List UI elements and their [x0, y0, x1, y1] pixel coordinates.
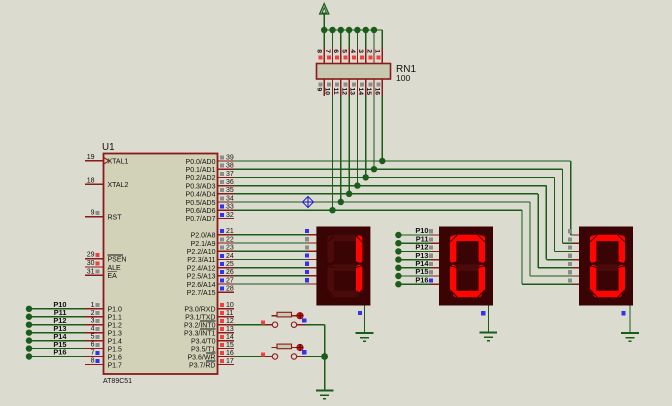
svg-text:P3.4/T0: P3.4/T0: [191, 338, 216, 345]
pin display3 segment g: [568, 278, 579, 284]
svg-text:12: 12: [340, 88, 347, 96]
svg-text:P2.6/A14: P2.6/A14: [187, 282, 216, 289]
svg-text:1: 1: [91, 302, 95, 309]
wire P2.4 to display1 segment: [234, 262, 316, 268]
pin display3 segment b: [568, 237, 579, 243]
svg-text:9: 9: [315, 88, 322, 92]
svg-text:P1.2: P1.2: [108, 323, 123, 330]
svg-text:13: 13: [226, 326, 234, 333]
junction dot bus 2: [329, 27, 335, 33]
svg-text:14: 14: [226, 334, 234, 341]
wire terminal P10 to display2: [395, 226, 439, 238]
junction dot AD4: [346, 191, 352, 197]
svg-text:16: 16: [226, 350, 234, 357]
wire RN1 pin11 to AD5 net: [340, 96, 342, 202]
svg-text:8: 8: [316, 49, 323, 53]
junction dot bus 5: [354, 27, 360, 33]
wire display1 to ground: [364, 306, 366, 334]
svg-text:P1.6: P1.6: [108, 354, 123, 361]
junction dot AD3: [354, 182, 360, 188]
pin display3 segment d: [568, 254, 579, 260]
pin 29 PSEN: [85, 252, 127, 264]
pin display3 segment a: [568, 229, 579, 235]
svg-text:28: 28: [226, 286, 234, 293]
svg-text:P1.5: P1.5: [108, 346, 123, 353]
svg-text:P3.2/INT0: P3.2/INT0: [184, 323, 216, 330]
wire terminal P11 to display2: [395, 234, 439, 246]
svg-text:P2.2/A10: P2.2/A10: [187, 249, 216, 256]
svg-text:P2.3/A11: P2.3/A11: [187, 257, 215, 264]
svg-text:27: 27: [226, 277, 234, 284]
svg-text:P2.5/A13: P2.5/A13: [187, 274, 216, 281]
svg-text:21: 21: [226, 228, 234, 235]
wire AD1 to display3 segment: [234, 169, 574, 243]
wire terminal P13 to display2: [395, 251, 439, 263]
RN1 top pins 8-1: [316, 48, 383, 64]
push button SW1: [261, 312, 306, 327]
wire RN1 pin12 to AD4 net: [348, 96, 350, 194]
svg-text:6: 6: [91, 342, 95, 349]
junction dot bus 4: [346, 27, 352, 33]
pins 10-17 P3.0-P3.7: [184, 302, 234, 369]
pins 1-8 P1.0-P1.7: [85, 302, 122, 369]
svg-text:18: 18: [87, 177, 95, 184]
svg-text:P1.0: P1.0: [108, 307, 123, 314]
svg-text:32: 32: [226, 212, 234, 219]
wire P2.1 to display1 segment: [234, 237, 316, 243]
wire AD5 to display3 segment: [234, 202, 574, 276]
label U1: [102, 142, 115, 153]
push button SW2: [261, 344, 306, 359]
pins 39-32 P0.0-P0.7: [186, 154, 234, 223]
value 100: [396, 73, 410, 83]
svg-text:1: 1: [374, 49, 381, 53]
svg-text:3: 3: [357, 49, 364, 53]
svg-text:P2.1/A9: P2.1/A9: [191, 241, 216, 248]
svg-text:RST: RST: [108, 214, 123, 221]
pin display3 segment c: [568, 246, 579, 252]
svg-text:38: 38: [226, 163, 234, 170]
svg-text:22: 22: [226, 236, 234, 243]
junction dot bus 1: [321, 27, 327, 33]
svg-text:P0.4/AD4: P0.4/AD4: [186, 192, 216, 199]
wire terminal P12 to display2: [395, 243, 439, 255]
svg-text:9: 9: [91, 210, 95, 217]
wire display3 to ground: [629, 306, 631, 334]
pin 18 XTAL2: [85, 177, 128, 189]
svg-text:35: 35: [226, 187, 234, 194]
svg-text:P0.5/AD5: P0.5/AD5: [186, 200, 216, 207]
svg-text:36: 36: [226, 179, 234, 186]
op-chip U1 AT89C51 body: [104, 154, 218, 375]
wire display2 to ground: [487, 306, 489, 333]
svg-text:15: 15: [226, 342, 234, 349]
wire button2 to node: [305, 356, 325, 358]
svg-text:23: 23: [226, 245, 234, 252]
svg-text:17: 17: [226, 358, 234, 365]
svg-text:XTAL1: XTAL1: [108, 159, 129, 166]
svg-text:19: 19: [87, 154, 95, 161]
junction dot AD5: [338, 199, 344, 205]
wires P10-P16 to port1: [26, 300, 85, 360]
wire RN1 pin10 to AD6 net: [332, 96, 334, 210]
wire terminal P15 to display2: [395, 267, 439, 279]
svg-text:P0.2/AD2: P0.2/AD2: [186, 175, 216, 182]
svg-text:XTAL2: XTAL2: [108, 182, 129, 189]
pins 21-28 P2.0-P2.7: [187, 228, 234, 297]
svg-text:AT89C51: AT89C51: [103, 378, 132, 385]
svg-text:15: 15: [365, 88, 372, 96]
display U3 seven-seg digit 0: [439, 227, 493, 306]
svg-text:16: 16: [374, 88, 381, 96]
svg-text:P0.6/AD6: P0.6/AD6: [186, 208, 216, 215]
svg-text:P2.4/A12: P2.4/A12: [187, 265, 216, 272]
wire P2.2 to display1 segment: [234, 245, 316, 251]
wires bus to RN1 top pins: [324, 30, 382, 48]
wire P2.0 to display1 segment: [234, 229, 316, 235]
label AT89C51: [103, 378, 132, 385]
blue pin square display3 common: [621, 311, 625, 315]
wire RN1 pin15 to AD1 net: [373, 96, 375, 169]
svg-text:ALE: ALE: [108, 265, 122, 272]
svg-text:11: 11: [226, 310, 233, 317]
svg-text:P1.3: P1.3: [108, 330, 123, 337]
junction dot bus 7: [371, 27, 377, 33]
pin 30 ALE: [85, 260, 121, 272]
svg-text:P3.7/RD: P3.7/RD: [189, 362, 215, 369]
svg-text:11: 11: [332, 88, 339, 95]
svg-text:29: 29: [87, 252, 95, 259]
junction dot bus 3: [338, 27, 344, 33]
svg-text:26: 26: [226, 269, 234, 276]
pin display3 segment e: [568, 262, 579, 268]
wire top bus: [324, 29, 382, 31]
RN1 bottom pins 9-16: [315, 79, 382, 96]
wire P2.5 to display1 segment: [234, 270, 316, 276]
wire button1 to node: [305, 325, 325, 357]
ground display3: [621, 333, 639, 341]
blue pin square display1 common: [358, 311, 362, 315]
junction dot AD2: [363, 174, 369, 180]
svg-text:100: 100: [396, 73, 410, 83]
label RN1: [396, 64, 416, 75]
svg-text:7: 7: [324, 49, 331, 53]
svg-text:P3.0/RXD: P3.0/RXD: [184, 307, 215, 314]
wire P2.6 to display1 segment: [234, 278, 316, 284]
svg-text:8: 8: [91, 357, 95, 364]
wire AD0 to display3 segment: [234, 161, 574, 235]
junction dot AD1: [371, 166, 377, 172]
wire P3.2 to button1: [234, 324, 265, 326]
svg-text:4: 4: [349, 49, 356, 53]
blue pin square display2 common: [481, 311, 485, 315]
resistor network RN1 body: [317, 64, 391, 80]
wire AD4 to display3 segment: [234, 194, 574, 268]
svg-text:P0.0/AD0: P0.0/AD0: [186, 159, 216, 166]
svg-text:P3.6/WR: P3.6/WR: [187, 354, 215, 361]
junction dot AD0: [379, 158, 385, 164]
ground buttons: [316, 391, 334, 399]
svg-text:6: 6: [332, 49, 339, 53]
svg-text:7: 7: [91, 350, 95, 357]
wire AD6 to display3 segment: [234, 210, 574, 284]
svg-text:P3.1/TXD: P3.1/TXD: [185, 315, 215, 322]
wire AD2 to display3 segment: [234, 177, 574, 251]
svg-text:P3.3/INT1: P3.3/INT1: [184, 330, 216, 337]
svg-text:2: 2: [91, 310, 95, 317]
display U2 seven-seg digit 1: [316, 227, 370, 306]
ground display1: [356, 333, 374, 341]
wire terminal P16 to display2: [395, 275, 439, 287]
svg-text:37: 37: [226, 171, 234, 178]
pin 31 EA: [85, 268, 117, 280]
power symbol VCC: [320, 4, 329, 30]
svg-text:P2.7/A15: P2.7/A15: [187, 290, 216, 297]
svg-text:P1.7: P1.7: [108, 362, 123, 369]
svg-text:P1.1: P1.1: [108, 315, 123, 322]
svg-text:4: 4: [91, 326, 95, 333]
svg-text:34: 34: [226, 195, 234, 202]
wire P2.3 to display1 segment: [234, 254, 316, 260]
pin 9 RST: [85, 210, 122, 222]
svg-text:14: 14: [357, 88, 364, 96]
ground display2: [480, 333, 498, 341]
svg-text:P1.4: P1.4: [108, 338, 123, 345]
wire RN1 pin16 to AD0 net: [381, 96, 383, 161]
wire terminal P14 to display2: [395, 259, 439, 271]
svg-text:12: 12: [226, 318, 234, 325]
wire RN1 pin13 to AD3 net: [356, 96, 358, 186]
svg-text:P0.7/AD7: P0.7/AD7: [186, 216, 216, 223]
svg-text:P0.1/AD1: P0.1/AD1: [186, 167, 216, 174]
svg-text:30: 30: [87, 260, 95, 267]
junction dot bus 6: [363, 27, 369, 33]
svg-text:5: 5: [341, 49, 348, 53]
svg-text:P16: P16: [415, 275, 428, 284]
node marker diamond: [303, 197, 314, 208]
svg-text:13: 13: [349, 88, 356, 96]
svg-text:U1: U1: [102, 142, 115, 153]
pin 19 XTAL1: [85, 154, 128, 166]
svg-text:3: 3: [91, 318, 95, 325]
svg-text:PSEN: PSEN: [108, 257, 127, 264]
svg-text:10: 10: [226, 302, 234, 309]
svg-text:P3.5/T1: P3.5/T1: [191, 346, 216, 353]
svg-text:2: 2: [365, 49, 372, 53]
pin display3 segment f: [568, 270, 579, 276]
wire node to ground: [324, 357, 326, 391]
svg-text:25: 25: [226, 261, 234, 268]
svg-text:P16: P16: [53, 348, 66, 357]
svg-text:39: 39: [226, 154, 234, 161]
junction dot buttons: [321, 353, 328, 360]
junction dot AD6: [329, 207, 335, 213]
svg-text:P0.3/AD3: P0.3/AD3: [186, 183, 216, 190]
wire AD3 to display3 segment: [234, 186, 574, 260]
svg-text:10: 10: [324, 88, 331, 96]
svg-text:5: 5: [91, 334, 95, 341]
wire RN1 pin14 to AD2 net: [365, 96, 367, 177]
svg-text:P2.0/A8: P2.0/A8: [191, 233, 216, 240]
svg-text:33: 33: [226, 204, 234, 211]
svg-text:31: 31: [87, 268, 95, 275]
svg-text:24: 24: [226, 253, 234, 260]
svg-text:EA: EA: [108, 273, 118, 280]
display U4 seven-seg digit 0: [579, 227, 633, 306]
wire P3.6 to button2: [234, 356, 265, 358]
